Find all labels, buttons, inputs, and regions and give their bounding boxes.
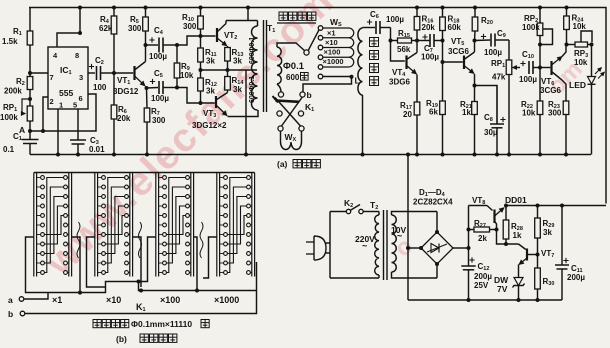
svg-text:3DG12×2: 3DG12×2: [192, 121, 227, 130]
winding former squiggle: [77, 222, 80, 258]
node VT1 collector junction: [144, 43, 148, 47]
svg-text:100µ: 100µ: [151, 94, 169, 103]
resistor R14: [227, 70, 229, 77]
svg-text:1k: 1k: [513, 231, 522, 240]
svg-text:62k: 62k: [99, 24, 113, 33]
wire terminal b line: [25, 262, 257, 314]
wire pin1 to ground rail: [57, 109, 59, 155]
svg-text:3k: 3k: [543, 228, 552, 237]
node A: [28, 129, 32, 133]
svg-text:7: 7: [50, 73, 54, 82]
node VT1 emitter junction: [145, 86, 149, 90]
svg-text:(b): (b): [116, 334, 127, 344]
winding section x100 right wire terminals: [186, 176, 190, 180]
svg-text:LED: LED: [569, 80, 586, 90]
svg-text:DD01: DD01: [505, 195, 527, 205]
winding former squiggle: [139, 222, 142, 258]
potentiometer RP2: [539, 8, 541, 24]
wire C6 to R15 and VT4 base: [391, 28, 405, 62]
node pin7 junction: [28, 71, 32, 75]
node VT8 emitter on rail: [504, 204, 508, 208]
winding section x100 right former bar: [190, 173, 192, 277]
wire induction coil bottom to rail: [362, 95, 364, 155]
potentiometer RP1: [27, 106, 33, 121]
winding section x1000 layer crossover wires: [227, 178, 246, 273]
wire bridge AC top: [436, 212, 438, 233]
winding section right side taps: [72, 237, 80, 293]
svg-text:20k: 20k: [422, 23, 436, 32]
wire top supply rail: [29, 8, 606, 204]
winding section x1 right former bar: [68, 173, 70, 277]
svg-text:300: 300: [128, 24, 142, 33]
transformer T2 core: [383, 210, 385, 280]
capacitor C10: [517, 67, 520, 69]
node VT3 base junction: [199, 101, 203, 105]
transistor VT6 3CG6: [540, 67, 550, 69]
svg-text:100: 100: [93, 83, 107, 92]
wire PSU ground rail: [408, 299, 562, 301]
capacitor C12: [468, 206, 470, 267]
terminal b: [20, 311, 25, 316]
svg-text:×100: ×100: [324, 48, 341, 57]
capacitor C3: [77, 109, 79, 140]
winding section x10 layer crossover wires: [105, 178, 124, 273]
svg-text:A: A: [19, 125, 25, 135]
resistor R28: [505, 206, 507, 221]
svg-text:3CG6: 3CG6: [448, 47, 469, 56]
label induction coil vertical text: [370, 38, 379, 47]
winding former squiggle: [200, 222, 203, 258]
zener diode DW 7V: [514, 278, 523, 286]
switch K1 top contacts: [278, 92, 283, 97]
wire bridge DC output left: [408, 247, 421, 249]
measured coil Wx: [280, 131, 282, 142]
transformer T2 secondary: [392, 215, 397, 272]
svg-text:6k: 6k: [429, 108, 438, 117]
svg-text:47k: 47k: [492, 73, 506, 82]
svg-text:3DG6: 3DG6: [389, 78, 410, 87]
induction coil winding: [358, 28, 363, 95]
winding section x10 left former bar: [94, 173, 96, 277]
resistor R11: [200, 36, 202, 48]
resistor R18: [442, 8, 444, 18]
svg-text:10k: 10k: [522, 109, 536, 118]
winding section x1000 lower loop: [203, 237, 217, 278]
svg-text:b: b: [307, 90, 312, 100]
resistor R13: [227, 46, 229, 48]
svg-text:555: 555: [59, 88, 73, 98]
svg-text:200k: 200k: [4, 87, 22, 96]
winding diagram top link wire: [34, 172, 255, 174]
op-amp IC1 555 timer: [48, 47, 88, 109]
svg-text:b: b: [8, 309, 13, 319]
winding section x1 lower loop: [26, 237, 49, 293]
svg-text:×10: ×10: [106, 295, 121, 305]
resistor R15: [398, 38, 412, 43]
switch K1 blade bar: [276, 101, 300, 102]
selector Ws wiper contact: [304, 50, 309, 55]
svg-text:6: 6: [79, 94, 83, 103]
node R10-VT2 base junction: [199, 34, 203, 38]
capacitor C8: [475, 86, 498, 125]
resistor R12: [200, 70, 202, 78]
resistor R6: [113, 73, 115, 105]
wire bottom rail of circuit (a): [30, 154, 591, 156]
capacitor C7: [422, 34, 427, 39]
svg-text:Φ0.1mm×11110: Φ0.1mm×11110: [131, 319, 192, 329]
wire PSU positive rail: [469, 205, 488, 207]
capacitor C1: [29, 131, 31, 140]
capacitor C9: [481, 34, 486, 39]
transistor VT5 3CG6: [463, 56, 465, 70]
svg-text:~: ~: [362, 241, 367, 251]
resistor R23: [563, 101, 569, 115]
transformer T1 secondary winding: [277, 47, 282, 84]
wire secondary top to Ws wiper: [277, 43, 305, 51]
capacitor C2: [88, 72, 95, 74]
svg-text:100µ: 100µ: [421, 53, 439, 62]
wire secondary bottom to K1: [277, 84, 281, 92]
svg-text:20k: 20k: [117, 114, 131, 123]
transistor VT4 3DG6: [405, 56, 407, 70]
winding section x1 right wire terminals: [64, 176, 68, 180]
node VT4 collector junction: [415, 39, 419, 43]
transistor VT8 series regulator: [487, 206, 493, 211]
wire plug to primary loop: [326, 242, 330, 244]
svg-text:100µ: 100µ: [519, 75, 537, 84]
winding section x10 right former bar: [129, 173, 131, 277]
mains plug: [314, 236, 326, 260]
transformer T1 primary winding: [252, 26, 258, 110]
svg-text:100µ: 100µ: [484, 48, 502, 57]
svg-text:2CZ82CX4: 2CZ82CX4: [413, 198, 453, 207]
wire node A to pin2/pin6: [30, 94, 96, 131]
node R28 bottom junction: [504, 242, 508, 246]
resistor R5: [145, 8, 147, 18]
winding section x10 left wire terminals: [102, 176, 106, 180]
heading standard coil label: [279, 12, 287, 20]
LED indicator: [591, 45, 593, 77]
wire VT7 emitter to zener: [518, 265, 520, 278]
winding section x1 left wire terminals: [41, 176, 45, 180]
svg-text:×1000: ×1000: [323, 57, 344, 66]
switch K1 crossover wires: [275, 98, 301, 127]
selector Ws wiper arm: [308, 30, 319, 51]
transistor VT3 3DG12x2: [215, 96, 217, 108]
svg-text:×100: ×100: [160, 295, 180, 305]
resistor R16: [416, 8, 418, 17]
wire VT8 base to VT7 collector: [497, 230, 519, 245]
svg-text:10k: 10k: [573, 22, 587, 31]
svg-text:2k: 2k: [478, 234, 487, 243]
svg-text:300: 300: [548, 109, 562, 118]
svg-text:3k: 3k: [233, 85, 242, 94]
wire bridge DC output right: [453, 247, 469, 249]
transformer T2 primary: [375, 215, 379, 275]
winding section x100 left former bar: [155, 173, 157, 277]
svg-text:1.5k: 1.5k: [2, 37, 18, 46]
wire pin8 to rail: [79, 8, 81, 34]
svg-text:100k: 100k: [0, 113, 18, 122]
node R27 input junction: [467, 228, 471, 232]
svg-text:1k: 1k: [462, 108, 471, 117]
switch K2: [330, 211, 346, 213]
capacitor C5: [147, 87, 159, 90]
svg-text:7V: 7V: [497, 284, 508, 294]
wire rail stub to primary top: [247, 8, 249, 21]
standard coil L tap loops: [323, 27, 349, 29]
svg-text:10k: 10k: [180, 71, 194, 80]
svg-text:Φ0.1: Φ0.1: [283, 61, 305, 72]
svg-text:200µ: 200µ: [474, 272, 492, 281]
resistor R21: [474, 86, 476, 102]
resistor R10: [200, 8, 202, 17]
svg-text:×1000: ×1000: [214, 295, 239, 305]
svg-text:600Φ0.1: 600Φ0.1: [249, 37, 256, 64]
potentiometer RP1 47k: [508, 40, 510, 60]
svg-text:~: ~: [397, 231, 402, 241]
node RP2 bottom junction: [538, 43, 542, 47]
svg-text:×10: ×10: [325, 38, 338, 47]
svg-text:100µ: 100µ: [149, 52, 167, 61]
resistor R19: [442, 62, 444, 101]
terminal a: [19, 297, 24, 302]
wire bridge AC bottom: [436, 264, 438, 278]
node VT1 base junction: [112, 71, 116, 75]
svg-text:3: 3: [79, 73, 83, 82]
wire C5 to VT3 base: [177, 88, 215, 104]
svg-text:a: a: [8, 295, 13, 305]
winding section x100 left wire terminals: [163, 176, 167, 180]
wire VT5 base: [443, 41, 463, 63]
winding section x10 lower loop: [87, 237, 106, 287]
node RP3 junction: [590, 43, 594, 47]
wire pin7 to left column: [30, 72, 48, 74]
node VT7 base junction: [536, 253, 540, 257]
caption standard coil spec: [93, 320, 101, 328]
winding section x1000 left former bar: [216, 173, 218, 277]
node VT8 base junction: [495, 228, 499, 232]
svg-text:300: 300: [152, 116, 166, 125]
svg-text:2: 2: [50, 97, 54, 106]
svg-text:0.1: 0.1: [3, 145, 15, 154]
resistor R9: [175, 43, 179, 47]
winding section x100 layer crossover wires: [166, 178, 185, 273]
transformer T1 core: [263, 20, 265, 112]
svg-text:200µ: 200µ: [567, 273, 585, 282]
resistor R27: [474, 227, 490, 232]
winding section x1000 right wire terminals: [247, 176, 251, 180]
resistor R2: [29, 73, 31, 77]
svg-text:1: 1: [59, 101, 63, 110]
svg-text:3DG12: 3DG12: [113, 87, 139, 96]
winding section x1000 left wire terminals: [224, 176, 228, 180]
svg-text:60k: 60k: [448, 23, 462, 32]
capacitor C6: [362, 27, 364, 30]
resistor R17: [416, 75, 418, 103]
resistor R7: [146, 88, 149, 108]
node R2-RP1 junction: [28, 97, 32, 101]
potentiometer RP3: [567, 44, 576, 46]
wire C4 to VT2 base: [177, 36, 216, 45]
resistor R29: [536, 204, 540, 208]
resistor R22: [539, 68, 541, 102]
selector switch Ws tap contacts: [318, 26, 323, 31]
svg-text:10k: 10k: [574, 58, 588, 67]
node VT6 base junction: [538, 66, 542, 70]
node VT5 emitter junction: [473, 84, 477, 88]
wire terminal a feed: [24, 293, 48, 300]
wire PSU to circuit ground: [407, 155, 409, 301]
node VT5 collector junction: [473, 39, 477, 43]
node R13-R14 junction / centre tap line: [226, 68, 230, 72]
wire pin4 to pin8 link: [57, 33, 80, 47]
transistor VT2 3DG12: [216, 28, 218, 42]
bridge rectifier D1-D4: [421, 232, 453, 264]
svg-text:×1: ×1: [327, 29, 336, 38]
node R11-R12 junction: [199, 68, 203, 72]
winding section x1 left former bar: [33, 173, 35, 277]
svg-text:300: 300: [183, 22, 197, 31]
svg-text:×1: ×1: [52, 295, 62, 305]
switch K1 bottom contacts: [278, 126, 283, 131]
transistor VT1 3DG12: [114, 72, 133, 74]
resistor R24: [566, 8, 568, 17]
svg-text:3k: 3k: [206, 57, 215, 66]
svg-text:20: 20: [403, 110, 412, 119]
transistor VT7: [519, 244, 526, 250]
resistor R1: [29, 8, 31, 32]
wire VT3 emitter to T1 primary bottom: [228, 110, 259, 117]
capacitor C4: [146, 44, 159, 46]
svg-text:(a): (a): [277, 159, 288, 169]
wire winding interconnect: [48, 282, 257, 293]
svg-text:25V: 25V: [474, 281, 489, 290]
resistor R4: [113, 8, 115, 17]
switch K1 middle contacts: [277, 111, 282, 116]
svg-text:8: 8: [75, 51, 79, 60]
svg-text:100µ: 100µ: [386, 15, 404, 24]
svg-text:600: 600: [286, 73, 300, 82]
winding section x100 lower loop: [139, 237, 156, 282]
svg-text:0.01: 0.01: [89, 145, 105, 154]
node R24 bottom junction: [565, 43, 569, 47]
winding section x10 right wire terminals: [125, 176, 129, 180]
wire L bottom tap to terminal b: [323, 76, 352, 78]
node R19 top junction: [441, 60, 445, 64]
wire centre tap to bottom rail: [245, 70, 247, 155]
svg-text:3CG6: 3CG6: [540, 86, 561, 95]
wire VT2 collector to T1 primary top: [226, 20, 258, 22]
capacitor C11: [560, 204, 564, 208]
resistor R30: [537, 255, 539, 269]
svg-text:3k: 3k: [206, 87, 215, 96]
wire pin2 riser: [43, 97, 48, 131]
svg-text:100k: 100k: [522, 23, 540, 32]
svg-text:600Φ0.1: 600Φ0.1: [249, 76, 256, 103]
svg-text:56k: 56k: [397, 45, 411, 54]
winding section x1000 right former bar: [251, 173, 253, 277]
resistor R20: [474, 8, 476, 18]
svg-text:30µ: 30µ: [484, 128, 498, 137]
svg-text:3k: 3k: [233, 57, 242, 66]
winding section x1 layer crossover wires: [44, 178, 63, 273]
wire RP2 to VT6 base node: [539, 45, 541, 68]
node VT5 base junction: [441, 39, 445, 43]
svg-text:5: 5: [73, 101, 77, 110]
